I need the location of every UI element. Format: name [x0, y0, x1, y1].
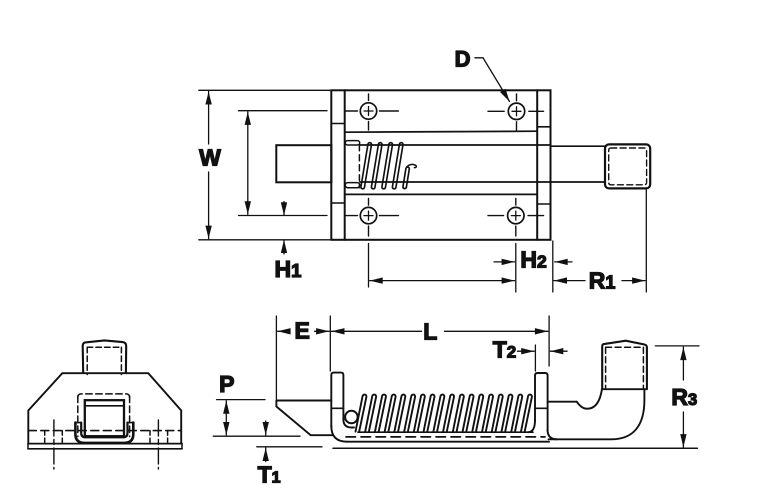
hole bottom-left	[346, 199, 399, 237]
handle rod top edge right of tab	[548, 401, 577, 403]
svg-text:H1: H1	[275, 256, 302, 282]
left flange notch upper	[331, 123, 344, 125]
spring end partial coil	[403, 167, 409, 189]
base plate top edge	[28, 443, 182, 445]
E dimension line left part	[278, 330, 287, 332]
L dimension line left part	[332, 330, 422, 332]
hole top-left	[346, 94, 399, 130]
bolt dashed outline left	[77, 396, 79, 437]
knob outline (top view)	[605, 144, 650, 188]
channel bottom line	[345, 193, 538, 195]
channel top line	[345, 131, 538, 132]
R3 dimension line bottom part	[682, 412, 684, 447]
handle neck dip curve	[577, 389, 602, 408]
L dimension line right part	[445, 330, 548, 332]
hole spacing dimension line (horizontal)	[370, 280, 515, 282]
spring coil 2 (top view)	[371, 143, 382, 189]
housing trapezoid outline	[28, 373, 181, 443]
knob dashed inner left	[605, 347, 607, 388]
svg-text:E: E	[295, 318, 310, 344]
D leader line	[475, 58, 510, 102]
base plate left end	[27, 444, 29, 449]
hole top-right	[488, 94, 544, 130]
right flange notch upper	[537, 126, 550, 128]
knob dashed inner right	[642, 347, 644, 388]
spring coils (side view)	[356, 395, 532, 432]
housing base bottom line	[347, 441, 549, 443]
spring anchor pin circle	[345, 411, 358, 424]
H2 left arrow	[494, 261, 515, 263]
DIMS	[199, 46, 647, 293]
T2 left extension line	[534, 345, 536, 371]
bolt rod top edge (left of tab)	[276, 400, 331, 402]
svg-text:W: W	[199, 145, 221, 171]
hidden base edge dashed line	[28, 430, 181, 432]
bolt rod to knob top edge	[551, 145, 606, 147]
spring wire tail hook	[407, 164, 416, 167]
bolt tip rectangle protruding left	[276, 145, 331, 182]
FRONTVIEW	[28, 340, 182, 469]
W dimension line	[208, 92, 210, 145]
W extension line top	[199, 89, 330, 91]
bolt dashed outline right	[129, 396, 131, 437]
E dimension line right part	[315, 330, 330, 332]
spring coil 3 (top view)	[382, 143, 393, 189]
hidden bolt dashed line	[346, 436, 545, 438]
U-bracket inner	[81, 423, 127, 438]
SIDEVIEW	[276, 341, 697, 449]
P dimension line	[225, 401, 227, 435]
bolt square solid (front view)	[85, 400, 124, 436]
svg-text:T2: T2	[493, 337, 517, 363]
bolt rod top edge (in channel)	[360, 144, 551, 146]
svg-text:P: P	[219, 371, 234, 397]
rod slot line across right tab	[535, 407, 548, 409]
knob (front view)	[83, 340, 127, 373]
knob dashed inner left	[86, 347, 88, 374]
R1 dimension line left part	[554, 280, 585, 282]
right tab to hook bottom curve	[548, 430, 557, 439]
T1 upper arrow	[265, 421, 267, 435]
right mounting flange inner edge	[536, 90, 538, 240]
svg-text:D: D	[455, 46, 471, 71]
T2 left arrow	[518, 350, 535, 352]
hidden bolt end dashed line	[358, 145, 360, 188]
spring seat bracket bottom	[345, 183, 359, 188]
knob dashed inner right	[120, 347, 122, 374]
screw centre line left	[53, 420, 55, 469]
knob right edge extension line	[645, 190, 647, 293]
coil seat line	[358, 431, 533, 433]
bolt rod to knob bottom edge	[551, 181, 606, 183]
spring seat bracket top	[345, 141, 359, 145]
knob dashed inner top	[87, 346, 121, 348]
T1 lower extension line	[257, 446, 322, 448]
knob bottom line (side view)	[602, 388, 645, 390]
svg-text:H2: H2	[520, 247, 547, 273]
svg-text:R3: R3	[671, 384, 697, 410]
hole-row spacing dimension line	[247, 112, 249, 214]
bolt dashed outline top	[78, 394, 130, 398]
svg-text:L: L	[423, 319, 437, 345]
left tab outer edge	[331, 373, 343, 427]
left flange notch lower	[331, 202, 344, 204]
U-bracket arm top caps	[75, 422, 81, 424]
R3 top extension line	[655, 345, 699, 347]
base plate right end	[181, 444, 183, 449]
L right extension line	[548, 316, 550, 366]
right tab outer edge	[535, 373, 548, 431]
base plate bottom edge	[28, 448, 182, 450]
spring coil 4 (top view)	[392, 143, 403, 189]
hole bottom-right	[488, 199, 544, 237]
knob outline (side view)	[602, 341, 647, 390]
hole-row extension line bottom	[239, 215, 328, 217]
spring coil 1 (top view)	[361, 143, 372, 189]
left tab to base outer curve	[331, 426, 347, 442]
left mounting flange inner edge	[344, 90, 346, 240]
H1 upper arrow	[283, 202, 285, 216]
H2 right arrow	[555, 261, 572, 263]
knob dashed inner (top view)	[609, 148, 647, 185]
TOPVIEW	[276, 90, 650, 240]
rod slot line across left tab	[331, 407, 343, 409]
T1 lower arrow	[265, 448, 267, 462]
E extension line left (to bolt tip)	[275, 316, 277, 399]
svg-text:R1: R1	[589, 267, 616, 293]
R1 dimension line right part	[622, 280, 645, 282]
svg-text:T1: T1	[258, 462, 281, 488]
handle outer bend to bottom	[549, 389, 645, 439]
P extension line top	[217, 399, 265, 401]
right tab inner lower curve	[528, 420, 535, 432]
E/L extension line middle	[329, 316, 331, 371]
bolt rod bottom edge (in channel)	[360, 181, 551, 183]
R3 dimension line top part	[682, 347, 684, 380]
bottom-left hole extension line	[368, 244, 370, 288]
bottom-right hole extension line	[515, 244, 517, 293]
housing body outline (top view)	[331, 90, 550, 240]
H1 lower arrow	[283, 240, 285, 254]
T2 right arrow	[550, 350, 567, 352]
hole-row extension line top	[239, 110, 328, 112]
mounting surface line	[333, 447, 697, 449]
right flange notch lower	[537, 203, 550, 205]
hidden hole wall dashes	[45, 431, 168, 444]
W extension line bottom	[199, 239, 330, 241]
screw centre line right	[157, 420, 159, 469]
U-bracket outer	[75, 423, 133, 443]
bolt tip chamfer	[276, 401, 333, 436]
knob dashed inner top	[606, 346, 644, 348]
left tab to base inner curve	[343, 420, 354, 428]
bolt square inner top line	[85, 405, 124, 407]
body right edge extension line	[552, 241, 554, 292]
P extension line bottom	[213, 435, 300, 437]
